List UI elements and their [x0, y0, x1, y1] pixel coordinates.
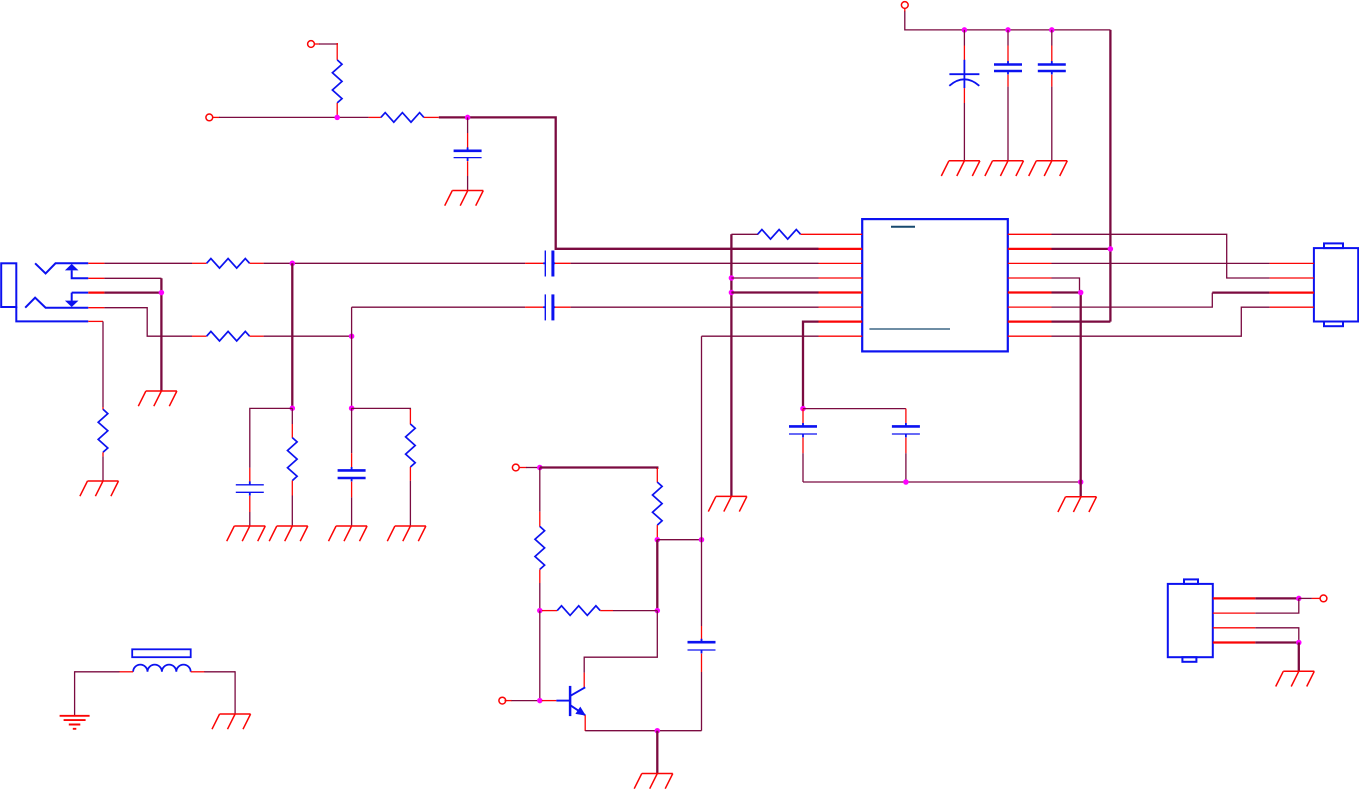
capacitor C7: [351, 408, 353, 453]
U1 pin 4 (left): [819, 277, 863, 279]
terminal P2: [206, 114, 213, 121]
pin 1: [88, 262, 104, 264]
wire: [505, 700, 513, 702]
junction: [1078, 290, 1084, 296]
ground GND15: [212, 714, 251, 729]
ground GND8: [269, 526, 308, 541]
junction: [537, 698, 543, 704]
terminal P3: [901, 2, 908, 9]
capacitor C3 plates: [1007, 61, 1009, 64]
junction: [962, 27, 968, 33]
wire: [803, 481, 1081, 483]
wire: [102, 321, 104, 407]
wire: [584, 715, 586, 731]
wire: [1080, 293, 1082, 497]
U1 pin 11 (right): [1008, 306, 1052, 308]
junction: [290, 261, 296, 267]
wire: [160, 278, 162, 391]
wire: [1212, 291, 1269, 293]
wire: [1109, 30, 1111, 322]
junction: [1049, 27, 1055, 33]
junction: [655, 728, 661, 734]
transistor Q1: [556, 700, 569, 702]
ground GND11: [708, 496, 747, 511]
wire: [104, 262, 192, 264]
wire: [731, 277, 818, 279]
U1 pin 5 (left): [819, 291, 863, 293]
wire: [104, 308, 192, 337]
capacitor C10 plates: [905, 423, 907, 426]
resistor R10: [539, 468, 541, 512]
junction: [465, 115, 471, 121]
U1 pin 12 (right): [1008, 291, 1052, 293]
junction: [903, 479, 909, 485]
CN2 pin 4: [1213, 641, 1256, 643]
CN1 pin 2: [1270, 277, 1314, 279]
wire: [730, 234, 732, 496]
capacitor C1: [467, 117, 469, 133]
resistor R9: [656, 468, 658, 482]
connector CN1: [1314, 248, 1358, 321]
ground GND13: [634, 774, 673, 789]
ground GND12: [1058, 497, 1097, 512]
CN2 pin 2: [1213, 612, 1256, 614]
wire: [1255, 597, 1299, 599]
U1 pin 16 (right): [1008, 233, 1052, 235]
wire: [656, 731, 658, 774]
wire: [542, 700, 557, 702]
junction: [699, 537, 705, 543]
junction: [729, 290, 735, 296]
capacitor C6: [249, 481, 251, 484]
capacitor C8: [525, 306, 543, 308]
capacitor C1 plates: [467, 147, 469, 150]
U1 pin 3 (left): [819, 262, 863, 264]
CN2 pin 3: [1213, 627, 1256, 629]
wire: [1298, 643, 1300, 672]
wire: [702, 335, 819, 337]
ground GND10: [387, 526, 426, 541]
resistor R3: [192, 262, 207, 264]
wire: [904, 8, 906, 12]
wire: [519, 467, 526, 469]
wire: [250, 408, 292, 468]
junction: [290, 405, 296, 411]
pin 4: [88, 307, 104, 309]
capacitor C4: [1051, 30, 1053, 46]
wire: [352, 306, 525, 308]
wire: [584, 611, 657, 673]
capacitor C9 plates: [802, 423, 804, 426]
capacitor C2 (electrolytic): [963, 30, 965, 46]
wire: [104, 291, 161, 293]
wire: [803, 408, 906, 410]
junction: [1108, 246, 1114, 252]
wire: [119, 671, 133, 673]
wire: [104, 277, 161, 279]
U1 label mark 2: [869, 328, 950, 330]
wire: [351, 307, 353, 408]
junction: [334, 115, 340, 121]
terminal P6: [1320, 595, 1327, 602]
pin 5: [88, 320, 103, 322]
junction: [537, 608, 543, 614]
resistor R5: [98, 409, 108, 452]
ground GND4: [1029, 161, 1068, 176]
resistor R6: [291, 408, 293, 424]
wire: [191, 671, 205, 673]
resistor R8: [758, 230, 801, 240]
ground GND5: [138, 391, 177, 406]
junction: [729, 275, 735, 281]
wire: [585, 730, 701, 732]
U1 pin 10 (right): [1008, 320, 1052, 322]
wire: [731, 233, 758, 235]
U1 pin 2 (left): [819, 248, 863, 250]
wire: [571, 306, 819, 308]
connector CN2: [1168, 584, 1213, 657]
terminal P4: [512, 464, 519, 471]
wire: [1052, 293, 1213, 308]
capacitor C5: [525, 262, 543, 264]
op-amp U1 (IC body): [862, 219, 1008, 351]
ground GND3: [985, 161, 1024, 176]
U1 pin 9 (right): [1008, 335, 1052, 337]
connector J1 (stereo jack): [1, 263, 16, 307]
junction: [1078, 479, 1084, 485]
terminal P5: [499, 697, 506, 704]
wire: [212, 116, 219, 118]
U1 label mark: [891, 226, 915, 228]
capacitor C7 plates: [351, 467, 353, 470]
ground GND16: [1276, 671, 1315, 686]
terminal P1: [308, 41, 315, 48]
wire: [439, 117, 819, 248]
CN2 pin 1: [1213, 597, 1256, 599]
wire: [1255, 628, 1299, 643]
U1 pin 14 (right): [1008, 262, 1052, 264]
U1 pin 1 (left): [819, 233, 863, 235]
U1 pin 8 (left): [819, 335, 863, 337]
CN1 pin 4: [1270, 306, 1314, 308]
resistor R7: [409, 409, 411, 424]
U1 pin 15 (right): [1008, 248, 1052, 250]
junction: [159, 290, 165, 296]
U1 pin 7 (left): [819, 320, 863, 322]
junction: [537, 465, 543, 471]
wire: [1052, 262, 1270, 264]
capacitor C10: [905, 409, 907, 425]
wire: [583, 673, 585, 688]
wire: [1052, 278, 1080, 293]
U1 pin 13 (right): [1008, 277, 1052, 279]
CN1 pin 1: [1270, 262, 1314, 264]
wire: [657, 539, 701, 541]
wire: [1052, 234, 1270, 278]
wire: [656, 540, 658, 611]
resistor R1: [336, 43, 338, 60]
wire: [352, 408, 411, 410]
wire: [1052, 291, 1081, 293]
capacitor C4 plates: [1051, 61, 1053, 64]
wire: [291, 263, 293, 408]
junction: [1296, 640, 1302, 646]
wire: [1255, 598, 1299, 613]
wire: [540, 468, 658, 470]
wire: [314, 43, 320, 45]
ground GND7: [227, 526, 266, 541]
junction: [349, 405, 355, 411]
ground GND6: [80, 481, 119, 496]
wire: [803, 322, 819, 409]
junction: [1005, 27, 1011, 33]
pin 3: [88, 291, 104, 293]
resistor R2: [369, 116, 381, 118]
junction: [1296, 596, 1302, 602]
ground GND1: [445, 191, 484, 206]
ground GND2: [941, 161, 980, 176]
wire: [731, 291, 818, 293]
junction: [349, 333, 355, 339]
wire: [571, 262, 819, 264]
capacitor C3: [1007, 30, 1009, 46]
wire: [234, 671, 236, 714]
wire: [1052, 307, 1270, 336]
wire: [1299, 597, 1312, 599]
wire: [264, 262, 525, 264]
wire: [539, 611, 541, 701]
U1 pin 6 (left): [819, 306, 863, 308]
capacitor C11 plates: [701, 639, 703, 642]
CN1 pin 3: [1270, 291, 1314, 293]
resistor R11: [542, 610, 557, 612]
ground GND9: [329, 526, 368, 541]
wire: [264, 335, 352, 337]
earth ground GND14: [60, 716, 90, 729]
junction: [655, 537, 661, 543]
wire: [1052, 248, 1111, 250]
resistor R4: [192, 335, 207, 337]
pin 2: [88, 277, 104, 279]
wire: [74, 671, 76, 716]
wire: [1052, 320, 1111, 322]
inductor L1: [132, 649, 191, 657]
capacitor C9: [802, 409, 804, 425]
junction: [800, 406, 806, 412]
wire: [701, 336, 703, 540]
wire: [1255, 641, 1299, 643]
capacitor C11: [701, 540, 703, 626]
junction: [655, 608, 661, 614]
